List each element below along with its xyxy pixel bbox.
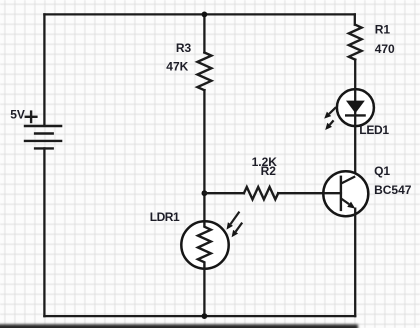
svg-text:47K: 47K xyxy=(166,59,188,73)
LED1 anode triangle xyxy=(346,101,365,114)
Q1 collector lead xyxy=(341,176,355,183)
LDR1 internal resistor zigzag xyxy=(198,221,211,268)
Q1 emitter lead xyxy=(341,198,349,204)
battery plus sign xyxy=(26,112,37,122)
LDR1 incident light arrow 2 xyxy=(232,223,243,238)
LED1 cathode bar xyxy=(346,114,364,116)
wire through LED xyxy=(354,89,356,126)
svg-text:R1: R1 xyxy=(375,22,391,36)
wire top rail from battery positive to R1 xyxy=(44,13,354,15)
svg-text:Q1: Q1 xyxy=(374,164,390,178)
wire R1 to LED xyxy=(354,60,356,90)
LED LED1 body circle xyxy=(337,89,374,126)
svg-text:LED1: LED1 xyxy=(359,123,389,137)
LED1 emitted light arrow 2 xyxy=(325,120,333,130)
node B base junction xyxy=(202,190,208,196)
svg-text:R3: R3 xyxy=(176,41,192,55)
node C bottom junction xyxy=(202,313,208,319)
wire bottom rail xyxy=(44,315,355,317)
wire left rail battery bottom to ground rail xyxy=(43,148,45,316)
wire LDR to bottom rail xyxy=(203,269,205,316)
node A top junction xyxy=(202,12,208,18)
photoresistor LDR1 body circle xyxy=(181,221,228,268)
svg-text:BC547: BC547 xyxy=(374,183,412,197)
wire left rail battery top xyxy=(43,14,45,126)
svg-text:R2: R2 xyxy=(261,164,277,178)
Q1 base bar xyxy=(340,177,342,210)
LED1 emitted light arrow 1 xyxy=(324,107,336,118)
wire middle branch top xyxy=(203,14,205,52)
wire R3 to LDR xyxy=(203,90,205,221)
wire LED to transistor collector xyxy=(354,126,356,176)
wire R2 to transistor base xyxy=(278,192,341,194)
battery B1 5V xyxy=(25,126,61,148)
resistor R2 xyxy=(244,187,278,199)
transistor Q1 body circle xyxy=(323,171,368,216)
Q1 emitter arrowhead xyxy=(347,202,355,209)
bottom screenshot edge bar xyxy=(0,324,358,328)
wire node B to R2 xyxy=(204,192,244,194)
resistor R3 xyxy=(197,53,211,91)
wire right rail top corner to R1 xyxy=(354,14,356,24)
wire emitter to bottom rail xyxy=(354,209,356,317)
svg-text:5V: 5V xyxy=(10,108,25,122)
svg-text:LDR1: LDR1 xyxy=(150,210,180,224)
LDR1 incident light arrow 1 xyxy=(227,212,240,230)
wire base lead inside circle xyxy=(324,192,341,194)
svg-text:470: 470 xyxy=(375,42,395,56)
resistor R1 xyxy=(349,25,362,60)
